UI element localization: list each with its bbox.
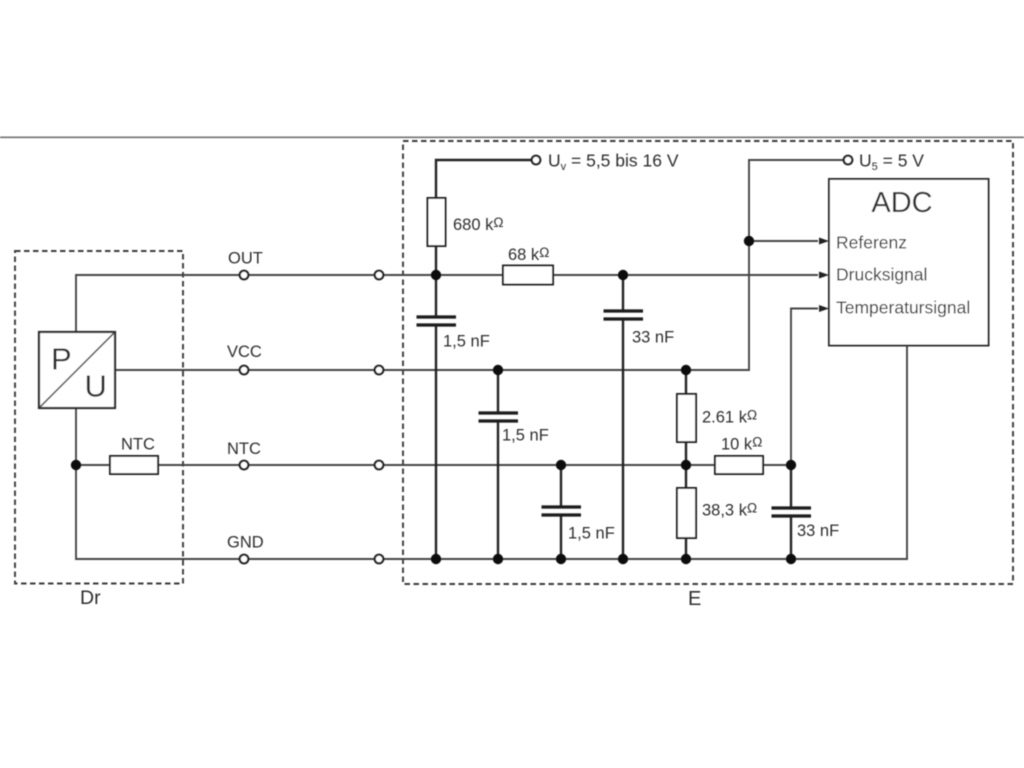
resistor R5 38,3 kOhm <box>677 488 696 538</box>
wire: UV supply feed to 680k <box>436 160 531 198</box>
svg-text:E: E <box>688 588 701 610</box>
terminal VCC left <box>240 366 249 375</box>
resistor R3 2.61 kOhm <box>677 394 696 442</box>
junction dot VCC/C3 <box>493 365 503 375</box>
op-amp/converter block ADC <box>829 179 989 346</box>
capacitor C4 1,5 nF <box>542 507 582 515</box>
terminal OUT right <box>375 271 384 280</box>
node U5 supply terminal <box>844 156 853 165</box>
junction dot GND/C3 <box>493 554 503 564</box>
terminal NTC right <box>375 461 384 470</box>
junction dot GND/C2 <box>618 554 628 564</box>
sensor block Dr (dashed enclosure) <box>15 251 183 584</box>
junction dot node after 10k <box>786 460 796 470</box>
junction dot NTC/divider <box>681 460 691 470</box>
svg-text:NTC: NTC <box>227 440 261 458</box>
wire: GND net (sensor ground rail to ADC bottom) <box>76 346 907 560</box>
junction dot OUT/R1 <box>431 270 441 280</box>
wire: VCC to C3 top plate <box>497 370 499 413</box>
wire: C2 bottom plate to GND rail <box>622 319 624 559</box>
junction dot GND/C1 <box>431 554 441 564</box>
terminal VCC right <box>375 366 384 375</box>
svg-text:1,5 nF: 1,5 nF <box>443 333 490 351</box>
svg-text:Temperatursignal: Temperatursignal <box>836 298 970 318</box>
svg-text:U: U <box>85 369 107 404</box>
terminal GND right <box>375 555 384 564</box>
wire: 680k to C1 top plate <box>435 246 437 317</box>
resistor R1 680 kOhm <box>428 198 446 246</box>
wire: node after 10k to C5 top plate <box>790 465 792 508</box>
svg-text:Uv = 5,5 bis 16 V: Uv = 5,5 bis 16 V <box>548 151 679 174</box>
capacitor C1 1,5 nF <box>417 317 457 325</box>
terminal NTC left <box>240 461 249 470</box>
svg-text:VCC: VCC <box>227 343 262 361</box>
resistor NTC (sensor thermistor) <box>110 456 158 474</box>
arrow into ADC Referenz <box>819 238 829 245</box>
wire: OUT net (sensor output to ADC Drucksignal) <box>76 275 818 332</box>
junction dot OUT/C2 <box>618 270 628 280</box>
svg-text:33 nF: 33 nF <box>797 522 839 540</box>
svg-text:Referenz: Referenz <box>836 233 907 253</box>
svg-text:ADC: ADC <box>871 187 932 219</box>
wire: NTC net to C4 top plate <box>560 465 562 507</box>
svg-text:Drucksignal: Drucksignal <box>836 265 927 285</box>
junction dot VCC/R3 <box>681 365 691 375</box>
capacitor C2 33 nF <box>604 311 644 319</box>
wire: C4 bottom plate to GND rail <box>560 515 562 559</box>
terminal GND left <box>240 555 249 564</box>
junction dot GND/C5 <box>786 554 796 564</box>
junction dot GND/C4 <box>556 554 566 564</box>
wire: VCC net (sensor supply to UV node) <box>115 160 843 370</box>
resistor R4 10 kOhm <box>715 456 763 474</box>
wire: Referenz branch to ADC <box>749 240 818 242</box>
junction dot Referenz tap <box>744 236 754 246</box>
wire: NTC net (through 10k to ADC Temperatursignal) <box>76 309 818 466</box>
resistor R2 68 kOhm <box>503 266 553 285</box>
svg-text:1,5 nF: 1,5 nF <box>568 525 615 543</box>
junction dot NTC/C4 <box>556 460 566 470</box>
capacitor C3 1,5 nF <box>479 413 519 421</box>
svg-text:1,5 nF: 1,5 nF <box>502 427 549 445</box>
capacitor C5 33 nF <box>772 508 812 516</box>
wire: C5 bottom plate to GND rail <box>790 516 792 559</box>
svg-text:P: P <box>51 342 72 377</box>
junction dot NTC at sensor <box>71 460 81 470</box>
arrow into ADC Drucksignal <box>819 272 829 279</box>
svg-text:OUT: OUT <box>228 250 263 268</box>
wire: divider column R3/R5 (VCC to GND) <box>685 370 687 559</box>
ECU block E (dashed enclosure) <box>403 141 1013 584</box>
terminal OUT left <box>240 271 249 280</box>
svg-text:Dr: Dr <box>80 587 101 609</box>
svg-text:GND: GND <box>227 534 264 552</box>
wire: C3 bottom plate to GND rail <box>497 421 499 559</box>
svg-text:33 nF: 33 nF <box>632 329 674 347</box>
arrow into ADC Temperatursignal <box>819 305 829 312</box>
svg-text:U5 = 5 V: U5 = 5 V <box>859 151 924 174</box>
sensor element U1 (P/U pressure cell) <box>39 332 115 408</box>
junction dot GND/R5 <box>681 554 691 564</box>
svg-text:NTC: NTC <box>121 436 155 454</box>
wire: OUT net to C2 top plate <box>622 275 624 311</box>
wire: C1 bottom plate to GND rail <box>435 325 437 559</box>
node UV supply terminal <box>532 156 541 165</box>
